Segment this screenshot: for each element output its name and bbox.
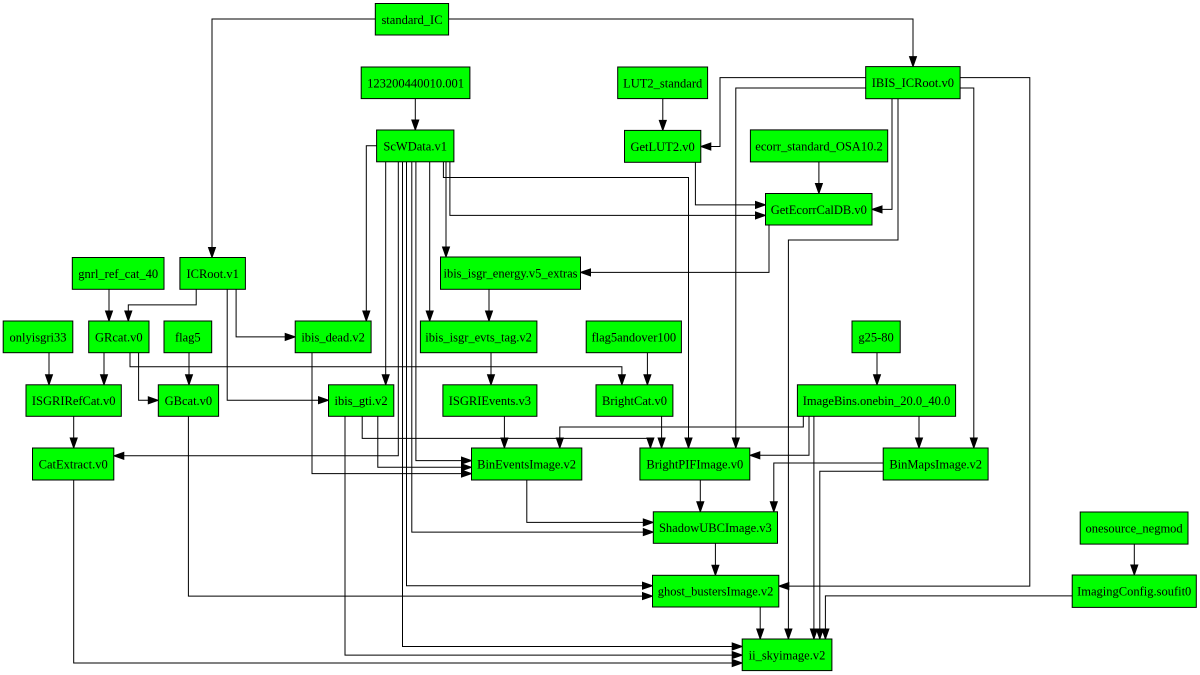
node ibis_dead.v2 xyxy=(295,321,371,353)
svg-text:onesource_negmod: onesource_negmod xyxy=(1085,522,1183,536)
node onesource_negmod xyxy=(1080,512,1188,544)
svg-text:ScWData.v1: ScWData.v1 xyxy=(383,139,447,153)
svg-text:ISGRIEvents.v3: ISGRIEvents.v3 xyxy=(449,394,531,408)
node ibis_isgr_evts_tag.v2 xyxy=(420,321,537,353)
wire IBIS_ICRoot.v0 -> BinMapsImage.v2 xyxy=(960,88,977,448)
node ImagingConfig.soufit0 xyxy=(1072,575,1196,607)
node BrightPIFImage.v0 xyxy=(640,448,750,480)
wire ScWData.v1 -> ghost_bustersImage.v2 xyxy=(407,162,653,589)
svg-text:GetEcorrCalDB.v0: GetEcorrCalDB.v0 xyxy=(771,203,867,217)
wire ICRoot.v1 -> ibis_dead.v2 xyxy=(236,289,295,340)
wire ScWData.v1 -> ibis_isgr_energy.v5_extras xyxy=(443,162,450,257)
wire IBIS_ICRoot.v0 -> GetLUT2.v0 xyxy=(701,78,866,150)
wire BinMapsImage.v2 -> ii_skyimage.v2 xyxy=(816,471,883,639)
wire ShadowUBCImage.v3 -> ghost_bustersImage.v2 xyxy=(712,543,719,575)
wire ScWData.v1 -> BinEventsImage.v2 xyxy=(416,162,472,464)
wire IBIS_ICRoot.v0 -> GetEcorrCalDB.v0 xyxy=(872,99,892,213)
wire ImageBins.onebin_20.0_40.0 -> BinMapsImage.v2 xyxy=(916,416,923,448)
wire ICRoot.v1 -> ibis_gti.v2 xyxy=(227,289,328,403)
svg-text:ibis_gti.v2: ibis_gti.v2 xyxy=(335,394,388,408)
node 123200440010.001 xyxy=(361,67,470,99)
wire ScWData.v1 -> ii_skyimage.v2 xyxy=(403,162,743,650)
node IBIS_ICRoot.v0 xyxy=(866,67,960,99)
svg-text:BinMapsImage.v2: BinMapsImage.v2 xyxy=(889,458,982,472)
svg-text:ibis_isgr_evts_tag.v2: ibis_isgr_evts_tag.v2 xyxy=(425,330,532,344)
wire BrightCat.v0 -> BrightPIFImage.v0 xyxy=(658,416,665,448)
wire GRcat.v0 -> BrightCat.v0 xyxy=(130,353,625,385)
svg-text:ibis_isgr_energy.v5_extras: ibis_isgr_energy.v5_extras xyxy=(443,267,577,281)
wire ScWData.v1 -> ibis_dead.v2 xyxy=(363,146,377,321)
node ghost_bustersImage.v2 xyxy=(653,575,779,607)
node flag5 xyxy=(164,321,212,353)
node g25-80 xyxy=(852,321,900,353)
svg-text:ImageBins.onebin_20.0_40.0: ImageBins.onebin_20.0_40.0 xyxy=(803,394,951,408)
node BinMapsImage.v2 xyxy=(883,448,988,480)
wire GRcat.v0 -> ISGRIRefCat.v0 xyxy=(101,353,108,385)
wire BrightPIFImage.v0 -> ShadowUBCImage.v3 xyxy=(697,480,704,512)
node ii_skyimage.v2 xyxy=(742,639,832,671)
wire GetLUT2.v0 -> GetEcorrCalDB.v0 xyxy=(695,162,765,208)
wire ICRoot.v1 -> GRcat.v0 xyxy=(125,289,196,321)
wire ScWData.v1 -> BrightPIFImage.v0 xyxy=(443,162,692,448)
wire ibis_isgr_evts_tag.v2 -> ISGRIEvents.v3 xyxy=(488,353,495,385)
wire BinMapsImage.v2 -> ShadowUBCImage.v3 xyxy=(770,463,883,512)
node BinEventsImage.v2 xyxy=(472,448,582,480)
svg-text:GetLUT2.v0: GetLUT2.v0 xyxy=(630,140,694,154)
svg-text:gnrl_ref_cat_40: gnrl_ref_cat_40 xyxy=(78,267,158,281)
node BrightCat.v0 xyxy=(596,385,673,417)
svg-text:ghost_bustersImage.v2: ghost_bustersImage.v2 xyxy=(658,585,774,599)
node ScWData.v1 xyxy=(377,130,454,162)
wire GRcat.v0 -> GBcat.v0 xyxy=(139,353,159,404)
svg-text:LUT2_standard: LUT2_standard xyxy=(623,76,703,90)
node ISGRIEvents.v3 xyxy=(443,385,537,417)
node ecorr_standard_OSA10.2 xyxy=(750,130,887,162)
wire GetEcorrCalDB.v0 -> ibis_isgr_energy.v5_extras xyxy=(581,225,770,276)
svg-text:ICRoot.v1: ICRoot.v1 xyxy=(186,267,238,281)
wire BinEventsImage.v2 -> ShadowUBCImage.v3 xyxy=(527,480,654,526)
wire ISGRIRefCat.v0 -> CatExtract.v0 xyxy=(70,416,77,448)
svg-text:flag5: flag5 xyxy=(175,330,201,344)
node onlyisgri33 xyxy=(3,321,73,353)
svg-text:ii_skyimage.v2: ii_skyimage.v2 xyxy=(749,648,826,662)
node GRcat.v0 xyxy=(89,321,149,353)
wire standard_IC -> ICRoot.v1 xyxy=(209,19,376,258)
wire ibis_gti.v2 -> BrightPIFImage.v0 xyxy=(362,416,654,448)
wire 123200440010.001 -> ScWData.v1 xyxy=(412,99,419,130)
node ICRoot.v1 xyxy=(180,258,246,290)
svg-text:CatExtract.v0: CatExtract.v0 xyxy=(39,458,108,472)
wire ibis_isgr_energy.v5_extras -> ibis_isgr_evts_tag.v2 xyxy=(486,289,493,321)
wire LUT2_standard -> GetLUT2.v0 xyxy=(659,99,666,131)
node GetLUT2.v0 xyxy=(625,130,701,162)
svg-text:ImagingConfig.soufit0: ImagingConfig.soufit0 xyxy=(1077,585,1191,599)
node ISGRIRefCat.v0 xyxy=(26,385,121,417)
node GBcat.v0 xyxy=(158,385,218,417)
svg-text:BrightPIFImage.v0: BrightPIFImage.v0 xyxy=(646,458,743,472)
node ibis_gti.v2 xyxy=(329,385,394,417)
wire ImageBins.onebin_20.0_40.0 -> BrightPIFImage.v0 xyxy=(750,416,809,459)
svg-text:GBcat.v0: GBcat.v0 xyxy=(165,394,213,408)
wire IBIS_ICRoot.v0 -> BrightPIFImage.v0 xyxy=(732,88,865,448)
node ShadowUBCImage.v3 xyxy=(653,512,777,544)
wire ibis_gti.v2 -> BinEventsImage.v2 xyxy=(378,416,472,471)
wire ecorr_standard_OSA10.2 -> GetEcorrCalDB.v0 xyxy=(815,162,822,194)
node GetEcorrCalDB.v0 xyxy=(766,194,873,226)
wire ScWData.v1 -> ibis_isgr_evts_tag.v2 xyxy=(426,162,433,321)
wire GBcat.v0 -> ghost_bustersImage.v2 xyxy=(188,416,652,599)
wire ScWData.v1 -> CatExtract.v0 xyxy=(114,162,399,460)
wire gnrl_ref_cat_40 -> GRcat.v0 xyxy=(106,289,113,321)
svg-text:BinEventsImage.v2: BinEventsImage.v2 xyxy=(477,458,576,472)
wire ScWData.v1 -> ibis_gti.v2 xyxy=(382,162,389,385)
wire IBIS_ICRoot.v0 -> ghost_bustersImage.v2 xyxy=(779,78,1030,590)
wire ibis_dead.v2 -> BinEventsImage.v2 xyxy=(312,353,472,477)
wire ibis_gti.v2 -> ii_skyimage.v2 xyxy=(345,416,742,658)
wire ImageBins.onebin_20.0_40.0 -> BinEventsImage.v2 xyxy=(556,416,803,448)
svg-text:ISGRIRefCat.v0: ISGRIRefCat.v0 xyxy=(32,394,116,408)
svg-text:standard_IC: standard_IC xyxy=(381,13,442,27)
svg-text:ShadowUBCImage.v3: ShadowUBCImage.v3 xyxy=(659,521,772,535)
wire IBIS_ICRoot.v0 -> ii_skyimage.v2 xyxy=(785,99,898,639)
node flag5andover100 xyxy=(586,321,681,353)
svg-text:ibis_dead.v2: ibis_dead.v2 xyxy=(301,330,365,344)
node ImageBins.onebin_20.0_40.0 xyxy=(797,385,955,417)
svg-text:IBIS_ICRoot.v0: IBIS_ICRoot.v0 xyxy=(872,76,954,90)
svg-text:123200440010.001: 123200440010.001 xyxy=(367,76,464,90)
wire ImageBins.onebin_20.0_40.0 -> ii_skyimage.v2 xyxy=(810,416,817,639)
wire flag5 -> GBcat.v0 xyxy=(186,353,193,385)
svg-text:onlyisgri33: onlyisgri33 xyxy=(10,330,67,344)
wire onesource_negmod -> ImagingConfig.soufit0 xyxy=(1131,544,1138,575)
svg-text:BrightCat.v0: BrightCat.v0 xyxy=(602,394,667,408)
wire ScWData.v1 -> ShadowUBCImage.v3 xyxy=(412,162,654,536)
wire standard_IC -> IBIS_ICRoot.v0 xyxy=(449,19,917,67)
svg-text:g25-80: g25-80 xyxy=(858,330,893,344)
wire ISGRIEvents.v3 -> BinEventsImage.v2 xyxy=(501,416,508,448)
svg-text:flag5andover100: flag5andover100 xyxy=(591,330,676,344)
wire onlyisgri33 -> ISGRIRefCat.v0 xyxy=(46,353,53,385)
node standard_IC xyxy=(375,4,448,36)
node LUT2_standard xyxy=(618,67,708,99)
node gnrl_ref_cat_40 xyxy=(72,258,164,290)
svg-text:GRcat.v0: GRcat.v0 xyxy=(95,330,143,344)
node CatExtract.v0 xyxy=(33,448,114,480)
wire ScWData.v1 -> GetEcorrCalDB.v0 xyxy=(450,162,766,219)
wire CatExtract.v0 -> ii_skyimage.v2 xyxy=(74,480,743,667)
node ibis_isgr_energy.v5_extras xyxy=(441,257,581,289)
wire flag5andover100 -> BrightCat.v0 xyxy=(644,353,651,385)
wire g25-80 -> ImageBins.onebin_20.0_40.0 xyxy=(874,353,881,385)
wire ImagingConfig.soufit0 -> ii_skyimage.v2 xyxy=(822,596,1072,639)
svg-text:ecorr_standard_OSA10.2: ecorr_standard_OSA10.2 xyxy=(755,139,882,153)
wire ghost_bustersImage.v2 -> ii_skyimage.v2 xyxy=(757,607,764,639)
